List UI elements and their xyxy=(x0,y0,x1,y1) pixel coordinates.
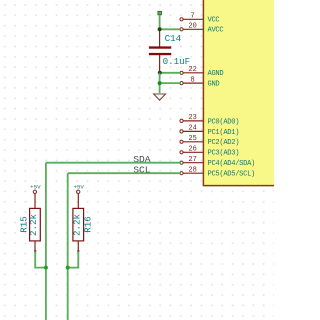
resistor R15 bottom lead xyxy=(34,241,36,251)
wire SDA vertical xyxy=(45,163,47,320)
svg-text:AGND: AGND xyxy=(208,70,224,78)
wire to pin 20 AVCC xyxy=(160,28,181,30)
svg-text:2.2k: 2.2k xyxy=(72,213,83,236)
wire R16 to SCL xyxy=(68,251,79,267)
svg-text:22: 22 xyxy=(188,66,196,74)
junction at AGND wire xyxy=(158,71,162,75)
pin 23 PC0(AD0) xyxy=(180,114,239,126)
svg-text:8: 8 xyxy=(190,76,194,84)
pin 24 PC1(AD1) xyxy=(180,125,239,137)
svg-text:PC1(AD1): PC1(AD1) xyxy=(208,129,240,137)
ground symbol xyxy=(154,94,166,100)
IC U1 body (microcontroller power / port C section) xyxy=(203,0,279,186)
svg-text:PC3(AD3): PC3(AD3) xyxy=(208,150,240,158)
svg-text:PC0(AD0): PC0(AD0) xyxy=(208,118,240,126)
svg-text:PC5(AD5/SCL): PC5(AD5/SCL) xyxy=(208,171,256,179)
svg-text:7: 7 xyxy=(190,13,194,21)
wire to pin 22 AGND xyxy=(160,72,181,74)
pin 8 GND xyxy=(180,76,220,88)
svg-text:2.2k: 2.2k xyxy=(28,213,39,236)
wire vertical AGND to GND xyxy=(159,73,161,93)
pin 7 VCC xyxy=(180,13,220,25)
resistor R15 top lead xyxy=(34,194,36,209)
svg-text:25: 25 xyxy=(188,135,196,143)
svg-text:C14: C14 xyxy=(165,33,182,44)
svg-text:GND: GND xyxy=(208,81,220,89)
wire vertical VCC stub xyxy=(159,15,161,29)
junction at GND wire xyxy=(158,81,162,85)
capacitor C14 plates xyxy=(149,46,171,55)
R16 pin end dot xyxy=(77,250,79,252)
svg-text:+5V: +5V xyxy=(73,184,84,191)
svg-text:26: 26 xyxy=(188,146,196,154)
R15 pin end dot xyxy=(34,250,36,252)
capacitor C14 bottom lead xyxy=(159,55,161,73)
resistor R16 bottom lead xyxy=(77,241,79,251)
pin 27 PC4(AD4/SDA) xyxy=(180,156,255,168)
wire SCL horizontal xyxy=(68,172,181,174)
pin 20 AVCC xyxy=(180,23,223,35)
pin 28 PC5(AD5/SCL) xyxy=(180,167,255,179)
junction at AVCC wire xyxy=(158,27,162,31)
svg-text:0.1uF: 0.1uF xyxy=(163,56,191,67)
pin 26 PC3(AD3) xyxy=(180,146,239,158)
resistor R16 top lead xyxy=(77,194,79,209)
wire end square marker (dangling VCC wire) xyxy=(158,11,162,15)
svg-text:R16: R16 xyxy=(82,216,93,233)
svg-text:VCC: VCC xyxy=(208,17,220,25)
svg-text:PC4(AD4/SDA): PC4(AD4/SDA) xyxy=(208,160,256,168)
svg-text:20: 20 xyxy=(188,23,196,31)
junction R15/SDA xyxy=(44,266,48,270)
svg-text:PC2(AD2): PC2(AD2) xyxy=(208,139,240,147)
wire R15 to SDA xyxy=(35,251,46,267)
pin 22 AGND xyxy=(180,66,223,78)
wire SCL vertical xyxy=(67,173,69,320)
svg-text:23: 23 xyxy=(188,114,196,122)
wire SDA horizontal xyxy=(46,162,181,164)
svg-text:AVCC: AVCC xyxy=(208,27,224,35)
resistor R15 body xyxy=(30,208,41,241)
svg-text:27: 27 xyxy=(188,156,196,164)
svg-text:24: 24 xyxy=(188,125,196,133)
pin 25 PC2(AD2) xyxy=(180,135,239,147)
svg-text:+5V: +5V xyxy=(30,184,41,191)
resistor R16 body xyxy=(73,208,84,241)
capacitor C14 top lead xyxy=(159,29,161,46)
junction R16/SCL xyxy=(66,266,70,270)
power +5V symbol at R15 xyxy=(30,184,41,194)
power +5V symbol at R16 xyxy=(73,184,84,194)
wire to pin 8 GND xyxy=(160,82,181,84)
svg-text:28: 28 xyxy=(188,167,196,175)
